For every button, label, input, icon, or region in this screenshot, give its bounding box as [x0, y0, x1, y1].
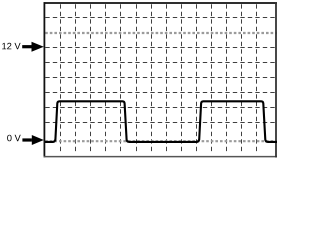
plot top border: [44, 2, 278, 4]
gray dashed level line upper: [45, 32, 277, 34]
scope graticule vertical gridlines: [61, 4, 257, 154]
plot right border: [275, 2, 277, 157]
12 V text: [2, 43, 20, 49]
0V label arrow: [22, 135, 43, 145]
plot bottom border: [44, 156, 278, 158]
gray dashed level line 0V: [45, 140, 277, 142]
scope graticule horizontal gridlines: [45, 18, 275, 123]
12V label arrow: [22, 42, 44, 52]
plot left border: [43, 2, 45, 157]
0 V text: [7, 135, 21, 142]
pulse waveform trace: [45, 101, 277, 142]
